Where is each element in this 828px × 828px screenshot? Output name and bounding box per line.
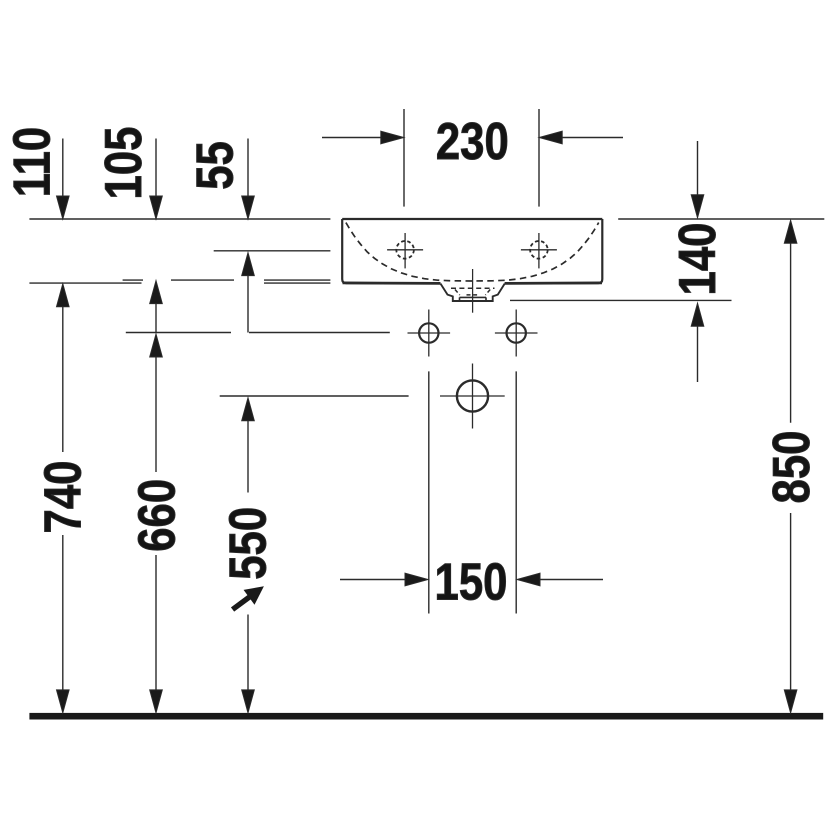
svg-text:550: 550	[220, 507, 277, 580]
svg-text:55: 55	[187, 141, 244, 190]
svg-text:140: 140	[669, 223, 726, 296]
svg-text:850: 850	[764, 431, 821, 504]
svg-text:230: 230	[436, 114, 509, 171]
svg-text:105: 105	[96, 127, 153, 200]
svg-text:110: 110	[4, 127, 61, 197]
svg-text:740: 740	[35, 461, 92, 534]
svg-text:150: 150	[435, 554, 508, 611]
svg-text:660: 660	[129, 479, 186, 552]
